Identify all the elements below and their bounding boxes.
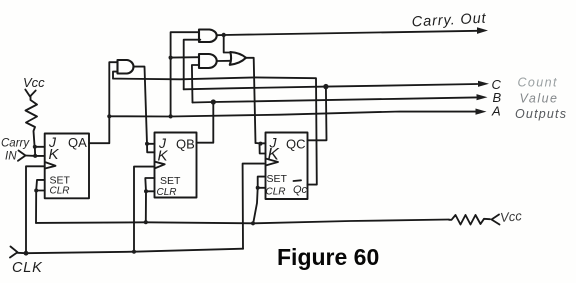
arrow B xyxy=(477,94,488,100)
node carry-out tap xyxy=(222,33,226,37)
wire G3 top input tap xyxy=(171,56,199,58)
wire U3 SET/CLR riser xyxy=(258,177,266,188)
wire G1 output to U2 J/K xyxy=(135,67,147,144)
wire CLK riser U2 xyxy=(134,167,155,252)
wire carry-in to JK bracket xyxy=(26,155,36,157)
wire SET/CLR bus to R2 xyxy=(36,220,449,224)
AND gate G2 (carry out) xyxy=(199,30,217,43)
arrow C xyxy=(478,81,489,87)
wire riser to G2/G3 top inputs (A) xyxy=(171,32,199,116)
arrow A xyxy=(476,109,487,115)
CLK chevron xyxy=(10,247,18,258)
svg-text:CLR: CLR xyxy=(50,186,70,197)
node CLK U1 xyxy=(24,251,29,256)
node A line tap 1 xyxy=(107,114,111,118)
svg-text:SET: SET xyxy=(267,173,288,185)
svg-text:QA: QA xyxy=(68,135,87,150)
node SET/CLR bus U3 xyxy=(251,221,255,225)
svg-text:K: K xyxy=(49,146,60,163)
wire G3 bottom input riser (B) xyxy=(192,65,199,103)
wire U1 SET/CLR riser xyxy=(36,180,45,191)
wire C output line xyxy=(184,84,478,89)
svg-text:IN: IN xyxy=(5,151,17,163)
wire CLK bus xyxy=(18,249,244,254)
wire carry-out xyxy=(218,31,478,35)
svg-text:Outputs: Outputs xyxy=(515,107,567,121)
wire G3 output to G4 xyxy=(217,60,231,62)
svg-text:Value: Value xyxy=(520,92,559,106)
node A line tap 2 xyxy=(169,114,173,118)
wire G4 output to U3 J/K xyxy=(246,58,256,143)
arrow carry-out xyxy=(477,27,488,34)
svg-text:CLR: CLR xyxy=(266,187,286,198)
svg-text:SET: SET xyxy=(160,175,181,187)
node CLK U2 xyxy=(132,250,136,254)
node U1 K xyxy=(33,154,37,158)
svg-text:Carry: Carry xyxy=(1,138,30,150)
wire U3 J/K bracket xyxy=(256,143,266,154)
flip-flop U1 (QA) xyxy=(45,134,89,199)
svg-text:Figure 60: Figure 60 xyxy=(277,244,379,270)
carry-in chevron xyxy=(18,151,26,161)
wire A output line xyxy=(109,112,476,117)
Vcc arrow symbol (left) xyxy=(25,90,35,97)
resistor R1 (pull-up, left) xyxy=(26,97,38,147)
wire CLK riser U1 xyxy=(26,166,45,253)
wire CLK riser U3 xyxy=(243,164,264,249)
wire riser G1 top input (A) xyxy=(109,62,117,116)
flip-flop U2 (QB) xyxy=(155,133,197,199)
svg-text:Vcc: Vcc xyxy=(23,75,45,90)
wire QB riser xyxy=(197,102,214,143)
wire U2 SET/CLR riser xyxy=(145,178,154,191)
resistor R2 (to Vcc, right) xyxy=(449,215,490,225)
wire U1 J/K bracket and stubs xyxy=(35,147,45,156)
svg-text:Vcc: Vcc xyxy=(499,208,522,225)
wire U2 J/K bracket xyxy=(147,144,155,153)
node U1 CLR xyxy=(34,189,38,193)
node B line QB tap xyxy=(211,99,216,104)
node U3 CLR xyxy=(256,186,260,190)
wire B output line xyxy=(193,97,477,102)
node U3 J xyxy=(259,142,263,146)
flip-flop U3 (QC) xyxy=(266,133,308,200)
wire G1 bottom input from QC' line xyxy=(113,72,317,185)
node U1 J xyxy=(33,145,37,149)
node SET/CLR bus U2 xyxy=(144,220,148,224)
node C line QC tap xyxy=(323,84,328,89)
OR gate G4 xyxy=(230,52,246,65)
svg-text:Qc: Qc xyxy=(293,184,308,196)
AND gate G3 (middle) xyxy=(199,54,217,68)
wire QA output to A-line xyxy=(89,116,109,143)
svg-text:A: A xyxy=(491,104,501,119)
node G3 input tap xyxy=(169,56,173,60)
AND gate G1 (QA·QC' feed to U2) xyxy=(118,60,134,74)
svg-text:QB: QB xyxy=(176,137,195,152)
wire QC riser xyxy=(308,87,327,141)
svg-text:Count: Count xyxy=(518,76,558,90)
node U2 CLR xyxy=(144,189,148,193)
wire carry node to G4 top input xyxy=(224,35,231,53)
wire G2 bottom input riser (C) xyxy=(184,40,201,90)
Vcc bracket (right) xyxy=(492,215,500,225)
node U2 J xyxy=(145,142,149,146)
svg-text:CLR: CLR xyxy=(157,187,177,198)
svg-text:CLK: CLK xyxy=(12,260,43,276)
svg-text:QC: QC xyxy=(286,137,306,152)
